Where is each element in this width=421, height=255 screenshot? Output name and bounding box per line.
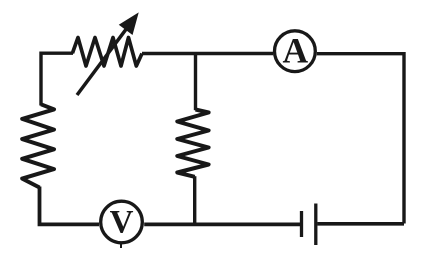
svg-text:V: V [110, 205, 134, 241]
wire: ammeter right, right side down, bottom right to battery [317, 54, 404, 224]
wire: middle branch top (junction to resistor R3) [194, 54, 197, 111]
resistor R2 (left branch) zigzag [22, 104, 54, 187]
rheostat arrow shaft [77, 29, 126, 95]
ammeter U1 circle [275, 31, 316, 72]
rheostat arrow head [120, 14, 137, 34]
wire: top middle segment (rheostat to ammeter, through middle junction) [142, 52, 273, 55]
wire: top-left corner (top wire left segment + left vertical down to resistor) [41, 53, 73, 105]
svg-text:A: A [282, 31, 308, 71]
battery cell B1 tall plate (positive) [314, 204, 317, 246]
wire: middle branch bottom (resistor R3 to bottom junction) [193, 176, 196, 224]
wire: bottom-left corner (voltmeter to left resistor bottom) [40, 187, 100, 225]
wire: bottom right (battery to right corner) [318, 222, 405, 226]
battery cell B1 short plate (negative) [300, 211, 303, 237]
variable resistor R1 (rheostat) zigzag [72, 38, 142, 67]
voltmeter bottom tick [120, 244, 122, 248]
voltmeter U2 circle [101, 201, 143, 243]
resistor R3 (middle branch) zigzag [177, 110, 208, 177]
wire: battery to voltmeter (bottom middle, through middle junction) [144, 222, 300, 226]
